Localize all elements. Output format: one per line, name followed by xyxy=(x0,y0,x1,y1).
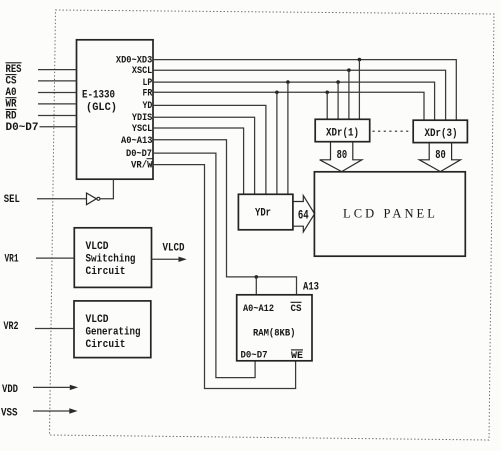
svg-text:XDr(1): XDr(1) xyxy=(326,127,359,139)
bus arrow 80 from XDr(1) to LCD panel xyxy=(320,142,362,172)
block U1 E-1330 (GLC) controller xyxy=(77,40,154,179)
svg-text:A0~A12: A0~A12 xyxy=(243,303,274,315)
wire A0~A12 into RAM top xyxy=(255,277,257,295)
dotted continuation XDr(1)..XDr(3) xyxy=(373,130,411,132)
block VLCD switching circuit xyxy=(74,228,151,288)
svg-text:D0~D7: D0~D7 xyxy=(241,350,268,362)
junction FR to XDr(1) xyxy=(325,91,329,95)
block LCD PANEL xyxy=(314,172,465,256)
block RAM (8KB) xyxy=(237,295,312,362)
svg-text:Generating: Generating xyxy=(86,326,141,338)
wire RD xyxy=(38,115,77,117)
svg-text:VLCD: VLCD xyxy=(86,241,109,253)
junction XSCL to XDr(1) xyxy=(347,68,351,72)
svg-text:WR: WR xyxy=(6,99,17,111)
svg-text:XDr(3): XDr(3) xyxy=(425,128,458,140)
svg-text:YSCL: YSCL xyxy=(132,123,152,135)
wire VR1 xyxy=(36,257,74,259)
driver YDr xyxy=(238,194,293,230)
svg-text:A0~A13: A0~A13 xyxy=(121,135,153,147)
svg-text:VLCD: VLCD xyxy=(86,314,109,326)
net XD0~XD3 bus wire xyxy=(153,60,456,121)
svg-text:Circuit: Circuit xyxy=(86,266,126,278)
net YDIS wire to YDr xyxy=(153,117,255,194)
wire VDD arrow xyxy=(33,386,75,388)
net YSCL wire to YDr xyxy=(153,128,244,194)
svg-text:80: 80 xyxy=(337,149,348,162)
svg-text:Circuit: Circuit xyxy=(86,339,126,351)
wire LP branch to XDr(1) xyxy=(337,82,339,119)
svg-text:YD: YD xyxy=(143,100,153,112)
svg-text:LCD PANEL: LCD PANEL xyxy=(343,206,438,221)
driver XDr(3) xyxy=(413,120,467,142)
junction XD0~XD3 to XDr(1) xyxy=(358,58,362,62)
svg-text:VSS: VSS xyxy=(1,408,18,420)
svg-text:RAM(8KB): RAM(8KB) xyxy=(253,328,296,340)
svg-text:CS: CS xyxy=(6,76,17,88)
wire VR2 xyxy=(35,328,74,330)
svg-text:YDr: YDr xyxy=(255,207,271,219)
driver XDr(1) xyxy=(315,119,370,141)
svg-text:(GLC): (GLC) xyxy=(86,102,117,114)
block VLCD generating circuit xyxy=(74,301,151,358)
svg-text:FR: FR xyxy=(143,87,153,99)
svg-text:Switching: Switching xyxy=(86,254,136,266)
bus arrow 64 from YDr to LCD panel xyxy=(293,196,315,232)
svg-text:VLCD: VLCD xyxy=(163,242,185,254)
wire A0 xyxy=(38,92,77,94)
svg-text:E-1330: E-1330 xyxy=(82,90,115,102)
wire XD0~XD3 branch to XDr(1) xyxy=(358,60,360,120)
wire SEL to buffer xyxy=(37,198,87,200)
svg-text:D0~D7: D0~D7 xyxy=(6,122,39,134)
wire CS xyxy=(38,80,77,82)
svg-text:64: 64 xyxy=(298,209,309,223)
wire LP branch to YDr xyxy=(287,82,289,194)
net D0~D7 bus wire to RAM xyxy=(153,153,255,378)
wire FR branch to XDr(1) xyxy=(326,92,328,119)
svg-text:XSCL: XSCL xyxy=(132,65,152,77)
wire RES xyxy=(38,69,77,71)
svg-text:A13: A13 xyxy=(303,282,319,294)
svg-text:CS: CS xyxy=(291,303,302,315)
junction LP to XDr(1) xyxy=(336,80,340,84)
wire D0~D7 xyxy=(40,126,77,128)
net VR/W wire to RAM WE xyxy=(153,165,296,389)
net A0~A13 bus wire to RAM xyxy=(153,140,297,295)
junction FR to YDr xyxy=(275,91,279,95)
svg-text:RD: RD xyxy=(6,110,17,122)
net YD wire to YDr xyxy=(153,105,266,194)
wire XSCL branch to XDr(1) xyxy=(348,70,350,119)
svg-text:VR2: VR2 xyxy=(4,321,19,333)
wire FR branch to YDr xyxy=(276,92,278,194)
svg-text:VDD: VDD xyxy=(2,384,18,396)
buffer/inverter gate on SEL xyxy=(87,193,97,205)
net XSCL wire xyxy=(153,70,446,120)
svg-text:VR/W: VR/W xyxy=(131,160,153,172)
net LP wire xyxy=(153,82,435,120)
net FR wire xyxy=(153,92,424,120)
output net VLCD with arrow xyxy=(152,258,184,260)
junction A0~A12 into RAM xyxy=(254,275,258,279)
wire VSS arrow xyxy=(33,410,74,412)
junction LP to YDr xyxy=(286,80,290,84)
svg-text:D0~D7: D0~D7 xyxy=(126,148,152,160)
svg-text:80: 80 xyxy=(435,149,446,162)
svg-text:WE: WE xyxy=(291,350,303,362)
svg-text:SEL: SEL xyxy=(4,194,20,206)
svg-text:VR1: VR1 xyxy=(5,254,19,266)
wire WR xyxy=(38,103,77,105)
wire buffer output to U1 xyxy=(100,179,114,199)
bus arrow 80 from XDr(3) to LCD panel xyxy=(419,143,460,172)
